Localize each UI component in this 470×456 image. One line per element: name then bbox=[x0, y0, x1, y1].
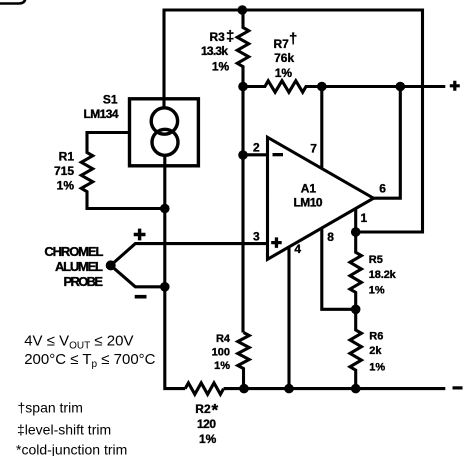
svg-text:*cold-junction trim: *cold-junction trim bbox=[16, 442, 127, 456]
wire: right column from top rail down to pin1 row bbox=[356, 9, 423, 233]
svg-text:715: 715 bbox=[54, 164, 74, 178]
svg-text:8: 8 bbox=[327, 230, 334, 244]
resistor R7 76k bbox=[243, 81, 322, 92]
junction: R2 / R4 ground rail bbox=[239, 384, 249, 394]
svg-text:LM134: LM134 bbox=[84, 107, 119, 121]
output terminal minus dash bbox=[453, 386, 463, 389]
svg-text:2: 2 bbox=[253, 141, 260, 155]
svg-text:R4: R4 bbox=[216, 333, 231, 345]
wire: top supply rail bbox=[163, 8, 423, 11]
resistor R6 2k bbox=[350, 309, 361, 388]
svg-text:1%: 1% bbox=[214, 360, 230, 372]
current source S1 box bbox=[130, 99, 199, 166]
wire: pin 1 stub bbox=[354, 209, 357, 233]
svg-text:4: 4 bbox=[294, 242, 301, 256]
thermocouple probe junction bead bbox=[106, 260, 116, 270]
svg-text:ALUMEL: ALUMEL bbox=[55, 259, 103, 274]
svg-text:1%: 1% bbox=[212, 60, 230, 74]
svg-text:76k: 76k bbox=[274, 51, 294, 65]
svg-text:1%: 1% bbox=[369, 362, 385, 374]
svg-text:‡: ‡ bbox=[226, 28, 234, 45]
svg-text:1%: 1% bbox=[199, 432, 217, 446]
pin 3 plus symbol bbox=[271, 237, 282, 248]
svg-text:1%: 1% bbox=[57, 179, 75, 193]
svg-text:4V ≤ VOUT ≤ 20V: 4V ≤ VOUT ≤ 20V bbox=[24, 333, 133, 352]
svg-text:1%: 1% bbox=[369, 284, 385, 296]
svg-text:R7: R7 bbox=[274, 37, 290, 51]
probe minus symbol bbox=[135, 295, 147, 299]
wire: pin 4 to ground rail bbox=[287, 247, 290, 389]
resistor R3 13.3k bbox=[237, 10, 248, 87]
svg-text:‡level-shift trim: ‡level-shift trim bbox=[17, 422, 111, 438]
thermocouple probe lower lead bbox=[111, 265, 165, 286]
wire: pin 6 output up to +V rail bbox=[374, 87, 401, 199]
resistor R5 18.2k bbox=[350, 232, 361, 309]
wire: bottom ground rail bbox=[224, 387, 446, 390]
thermocouple probe upper lead to pin 3 bbox=[111, 244, 268, 266]
svg-text:R5: R5 bbox=[369, 254, 383, 266]
junction: pin 4 / ground rail bbox=[284, 384, 294, 394]
svg-text:18.2k: 18.2k bbox=[369, 269, 397, 281]
svg-text:R2: R2 bbox=[195, 402, 211, 416]
wire: S1 bottom to probe minus node bbox=[163, 155, 166, 287]
wire: left column down to bottom rail corner bbox=[165, 287, 185, 389]
svg-text:PROBE: PROBE bbox=[64, 274, 104, 289]
wire: left riser from top rail into S1 box bbox=[162, 10, 165, 108]
svg-text:2k: 2k bbox=[369, 345, 382, 357]
junction: R1 / S1 column bbox=[160, 204, 170, 214]
resistor R2 120 bbox=[185, 383, 223, 394]
svg-text:CHROMEL: CHROMEL bbox=[44, 244, 103, 259]
svg-text:R1: R1 bbox=[59, 149, 75, 163]
output terminal plus bbox=[450, 81, 460, 91]
junction: top rail / R3 bbox=[238, 5, 248, 15]
svg-text:1: 1 bbox=[361, 211, 368, 225]
svg-text:120: 120 bbox=[197, 417, 216, 431]
svg-text:3: 3 bbox=[253, 230, 260, 244]
svg-text:S1: S1 bbox=[103, 93, 118, 107]
svg-text:100: 100 bbox=[212, 347, 230, 359]
svg-text:200°C ≤ Tp ≤ 700°C: 200°C ≤ Tp ≤ 700°C bbox=[24, 351, 155, 370]
op-amp A1 triangle bbox=[268, 137, 374, 259]
junction: pin7 / +V rail bbox=[317, 82, 327, 92]
wire: R3/R7 node down to R4 bbox=[241, 87, 244, 333]
wire: pin 7 to +V rail bbox=[320, 87, 323, 169]
svg-text:1%: 1% bbox=[275, 66, 293, 80]
probe plus symbol bbox=[134, 229, 146, 241]
cut-off label box top-left bbox=[0, 0, 26, 4]
junction: probe minus / left column bbox=[160, 282, 170, 292]
svg-text:7: 7 bbox=[310, 142, 317, 156]
wire: +V output rail bbox=[322, 85, 446, 88]
wire: pin 2 input bbox=[243, 153, 268, 156]
svg-text:R6: R6 bbox=[369, 331, 383, 343]
junction: R3 / R7 node bbox=[238, 82, 248, 92]
junction: pin6 feedback / +V rail bbox=[396, 82, 406, 92]
junction: R5 / R6 / pin 8 bbox=[351, 305, 361, 315]
S1 current source circle top bbox=[151, 108, 177, 134]
junction: pin 1 / R5 bbox=[351, 227, 361, 237]
S1 current source circle bottom bbox=[152, 129, 178, 155]
resistor R1 715 with leads bbox=[81, 133, 165, 209]
svg-text:A1: A1 bbox=[301, 181, 317, 195]
pin 2 minus symbol bbox=[273, 153, 284, 156]
svg-text:13.3k: 13.3k bbox=[201, 44, 228, 58]
wire: pin 8 to R5/R6 node bbox=[322, 228, 356, 309]
svg-text:R3: R3 bbox=[210, 30, 226, 44]
svg-text:LM10: LM10 bbox=[294, 196, 323, 210]
svg-text:6: 6 bbox=[379, 181, 386, 195]
svg-text:†: † bbox=[289, 31, 297, 48]
resistor R4 100 bbox=[238, 333, 249, 389]
junction: R6 / ground rail bbox=[351, 384, 361, 394]
junction: pin 2 node bbox=[238, 150, 248, 160]
svg-text:†span trim: †span trim bbox=[18, 400, 83, 416]
